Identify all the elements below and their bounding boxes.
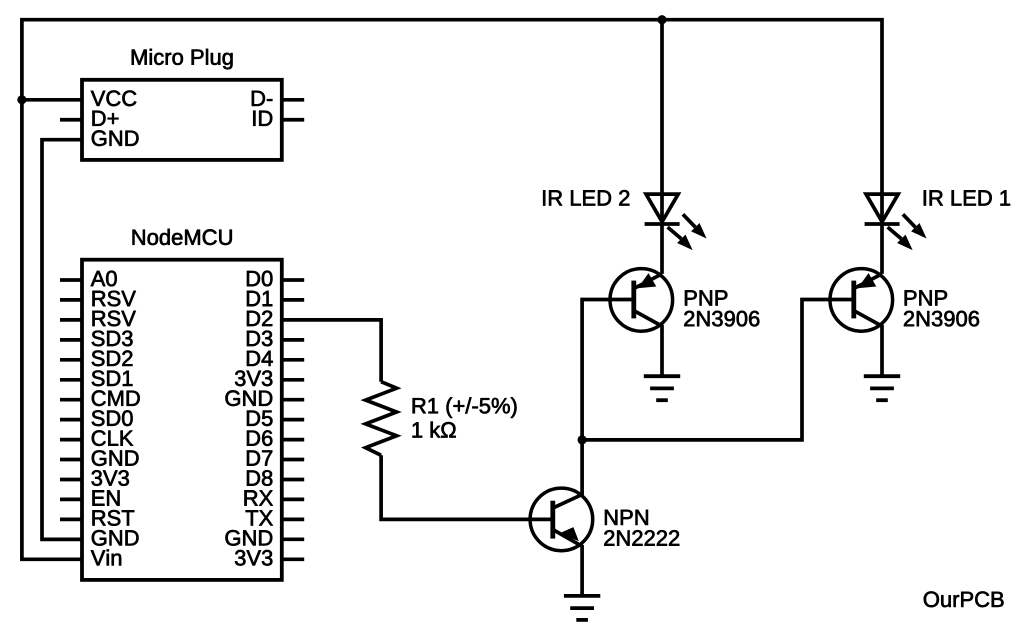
pin ID stub [282, 118, 304, 122]
pin label Vin left 15 [91, 550, 121, 566]
pin CLK stub left 9 [60, 438, 82, 442]
transistor Q3 base bar [851, 281, 856, 319]
pin CMD stub left 7 [60, 398, 82, 402]
pin label D5 right 8 [247, 411, 272, 426]
label 2N2222 [604, 530, 679, 545]
pin label D7 right 10 [247, 451, 272, 466]
pin D4 stub right 5 [282, 358, 304, 362]
pin D0 stub right 1 [282, 278, 304, 282]
pin label SD1 left 6 [92, 371, 133, 387]
pin RSV stub left 3 [60, 318, 82, 322]
pin label CMD left 7 [92, 390, 140, 406]
pin label D0 right 1 [247, 271, 272, 287]
pin D8 stub right 11 [282, 478, 304, 482]
pin SD3 stub left 4 [60, 338, 82, 342]
pin label SD3 left 4 [92, 331, 133, 347]
transistor Q2 emitter arrow [638, 273, 657, 288]
transistor Q1 collector [553, 440, 582, 508]
wire VCC to Micro Plug [22, 98, 82, 102]
pin D6 stub right 9 [282, 438, 304, 442]
pin D1 stub right 2 [282, 298, 304, 302]
pin label D1 right 2 [247, 291, 272, 306]
transistor Q2 base bar [631, 281, 636, 319]
diode IR LED 2 cathode bar [645, 222, 680, 226]
pin label RST left 13 [93, 510, 135, 526]
pin label SD0 left 8 [92, 410, 133, 426]
label PNP right [905, 290, 947, 305]
node VCC junction dot [17, 95, 26, 104]
transistor Q1 base bar [550, 501, 555, 539]
IC U1 NodeMCU box [82, 260, 282, 580]
node Q1 collector junction dot [578, 435, 587, 444]
pin label GND left 10 [92, 450, 139, 466]
diode IR LED 1 triangle [866, 194, 898, 222]
pin TX stub right 13 [282, 518, 304, 522]
pin D- stub [282, 98, 304, 102]
transistor Q2 collector [634, 311, 662, 375]
pin label 3V3 right 15 [235, 550, 272, 566]
pin label EN left 12 [93, 490, 120, 505]
pin label RSV left 2 [93, 291, 136, 307]
pin label RX right 12 [245, 490, 273, 505]
label R1 value 1 kOhm [413, 422, 456, 438]
diode IR LED 2 emission arrow upper [683, 214, 695, 227]
pin label SD2 left 5 [92, 351, 133, 367]
pin SD0 stub left 8 [60, 418, 82, 422]
ground below Q2 [644, 376, 680, 400]
pin label D6 right 9 [247, 430, 272, 446]
label IR LED 1 [924, 190, 1010, 205]
transistor Q2 emitter [635, 274, 662, 288]
pin GND stub right 14 [282, 537, 304, 541]
label 2N3906 right [904, 311, 979, 327]
pin 3V3 stub left 11 [60, 478, 82, 482]
pin GND stub left 10 [60, 458, 82, 462]
pin label VCC [91, 91, 137, 107]
transistor Q3 PNP circle [830, 269, 893, 332]
diode IR LED 2 triangle [646, 194, 678, 222]
transistor Q3 emitter [855, 274, 882, 288]
pin RSV stub left 2 [60, 298, 82, 302]
pin label D- [252, 91, 272, 106]
pin EN stub left 12 [60, 498, 82, 502]
diode IR LED 1 emission arrow upper [903, 214, 915, 227]
pin D5 stub right 8 [282, 418, 304, 422]
wire D2 pin to resistor R1 [282, 320, 381, 382]
pin label D3 right 4 [247, 331, 272, 347]
pin A0 stub left 1 [60, 278, 82, 282]
pin RX stub right 12 [282, 498, 304, 502]
wire Q2 base to junction to Q3 base [582, 300, 854, 440]
pin label D8 right 11 [247, 470, 272, 486]
pin SD1 stub left 6 [60, 378, 82, 382]
pin label ID [253, 111, 272, 126]
pin label GND right 14 [226, 530, 273, 546]
pin label 3V3 left 11 [92, 470, 129, 486]
label OurPCB [924, 592, 1004, 608]
transistor Q3 collector [854, 311, 882, 375]
label NPN [605, 510, 648, 525]
pin label TX right 13 [246, 510, 273, 525]
transistor Q1 emitter [553, 530, 582, 595]
pin label GND right 7 [226, 390, 273, 406]
transistor Q1 NPN circle [530, 488, 593, 551]
pin SD2 stub left 5 [60, 358, 82, 362]
resistor R1 zigzag [366, 382, 397, 456]
pin D3 stub right 4 [282, 338, 304, 342]
pin GND stub right 7 [282, 398, 304, 402]
diode IR LED 1 cathode bar [865, 222, 900, 226]
pin D+ stub [60, 118, 82, 122]
connector J1 Micro Plug box [82, 80, 282, 160]
pin label CLK left 9 [92, 430, 133, 446]
wire top rail to IR LED 2 branch [660, 20, 664, 274]
wire main loop: Vin, left rail, top rail, down to IR LED 1 branch [22, 20, 882, 560]
pin label D+ [93, 111, 119, 126]
pin label 3V3 right 6 [235, 371, 272, 387]
transistor Q3 emitter arrow [858, 273, 877, 288]
label PNP left [685, 290, 727, 305]
pin label D4 right 5 [247, 351, 273, 366]
wire R1 bottom to Q1 base [381, 455, 551, 519]
label Micro Plug [132, 49, 233, 70]
label NodeMCU [133, 229, 232, 245]
pin 3V3 stub right 6 [282, 378, 304, 382]
label R1 tolerance [413, 397, 517, 418]
wire Micro Plug GND to NodeMCU GND [42, 140, 82, 540]
pin RST stub left 13 [60, 518, 82, 522]
transistor Q2 PNP circle [610, 269, 673, 332]
pin label GND left 14 [92, 530, 139, 546]
pin D7 stub right 10 [282, 458, 304, 462]
pin 3V3 stub right 15 [282, 557, 304, 561]
ground below Q3 [864, 376, 900, 400]
label IR LED 2 [543, 190, 629, 205]
pin label RSV left 3 [93, 311, 136, 327]
ground below Q1 [564, 596, 600, 620]
diode IR LED 1 emission arrow lower [888, 227, 902, 239]
node top rail junction dot [657, 15, 666, 24]
pin label GND [92, 130, 139, 146]
transistor Q1 emitter arrow [559, 527, 579, 541]
label 2N3906 left [684, 311, 759, 327]
pin label D2 right 3 [247, 311, 272, 326]
diode IR LED 2 emission arrow lower [668, 227, 682, 239]
pin label A0 left 1 [91, 271, 117, 287]
